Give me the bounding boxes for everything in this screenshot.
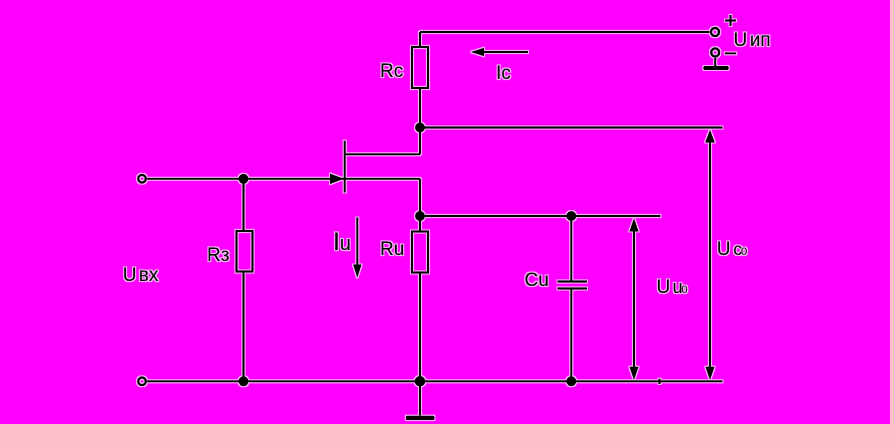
resistor Rc — [412, 47, 428, 88]
node G bottom rail capacitor junction — [566, 376, 576, 386]
arrow Uu0 line — [633, 230, 635, 370]
arrowhead Uc0 bottom (points down) — [705, 367, 714, 381]
svg-text:Cu: Cu — [525, 270, 549, 291]
wire bottom rail — [147, 380, 723, 382]
ground main bar — [406, 416, 435, 421]
node D capacitor top junction — [566, 211, 576, 221]
transistor VT1 drain tap — [345, 153, 420, 155]
node C gate junction — [239, 174, 249, 184]
wire gate from input to transistor — [147, 178, 344, 180]
svg-text:u: u — [340, 233, 351, 255]
svg-text:вх: вх — [139, 265, 159, 286]
wire Ru top lead — [419, 216, 421, 232]
ground supply bar — [703, 66, 728, 70]
transistor VT1 channel bar — [344, 141, 346, 193]
svg-text:Rc: Rc — [380, 61, 403, 82]
minus sign — [725, 52, 737, 54]
arrowhead gate (points right) — [330, 174, 344, 185]
wire drain vertical into transistor — [419, 128, 421, 155]
wire capacitor bottom lead — [570, 289, 572, 382]
arrowhead Uu0 top (points up) — [629, 218, 638, 232]
plus sign — [725, 20, 736, 22]
svg-text:Ru: Ru — [380, 239, 404, 260]
svg-text:U: U — [717, 239, 731, 260]
arrowhead Uc0 top (points up) — [705, 130, 715, 143]
wire node B to right (Uu0 reference) — [420, 215, 660, 217]
capacitor Cu top plate — [558, 280, 588, 282]
svg-text:U: U — [123, 265, 137, 286]
wire Ru bottom lead — [419, 273, 421, 382]
arrow Uc0 line — [709, 141, 711, 370]
svg-text:Ic: Ic — [496, 63, 511, 84]
supply ground vertical — [714, 58, 716, 66]
capacitor Cu bottom plate — [558, 287, 588, 289]
svg-text:ип: ип — [750, 30, 771, 51]
resistor Ru — [412, 232, 428, 273]
node A drain junction — [415, 123, 425, 133]
terminal supply minus — [711, 48, 719, 56]
wire Rc top lead — [419, 32, 421, 47]
terminal input bottom — [138, 378, 146, 386]
arrowhead Uu0 bottom (points down) — [629, 367, 638, 381]
wire capacitor top lead — [570, 216, 572, 282]
wire top rail from Rc top to supply terminal — [420, 31, 710, 33]
wire Rc bottom lead — [419, 88, 421, 128]
wire R3 top lead — [242, 179, 244, 231]
junction tick on bottom rail — [658, 379, 660, 384]
arrow Iu line — [356, 218, 358, 267]
arrowhead Iu (points down) — [353, 265, 362, 279]
arrowhead Ic (points left) — [471, 48, 485, 57]
node E bottom rail R3 junction — [239, 376, 249, 386]
wire R3 bottom lead — [242, 272, 244, 382]
wire source tap — [345, 178, 420, 180]
svg-text:U: U — [734, 30, 748, 51]
resistor R3 — [237, 231, 253, 272]
svg-text:U: U — [657, 277, 671, 298]
terminal supply plus — [711, 28, 719, 36]
terminal input top — [138, 175, 146, 183]
ground main vertical — [419, 381, 421, 415]
wire drain node to Uc0 reference (node A right) — [420, 126, 723, 128]
svg-text:0: 0 — [741, 246, 747, 258]
svg-text:Rз: Rз — [207, 245, 229, 266]
arrow Ic line — [482, 51, 528, 53]
svg-text:0: 0 — [681, 284, 687, 296]
node B source junction — [415, 211, 425, 221]
node F bottom rail Ru junction — [415, 376, 426, 387]
wire source vertical down to node B — [419, 179, 421, 216]
